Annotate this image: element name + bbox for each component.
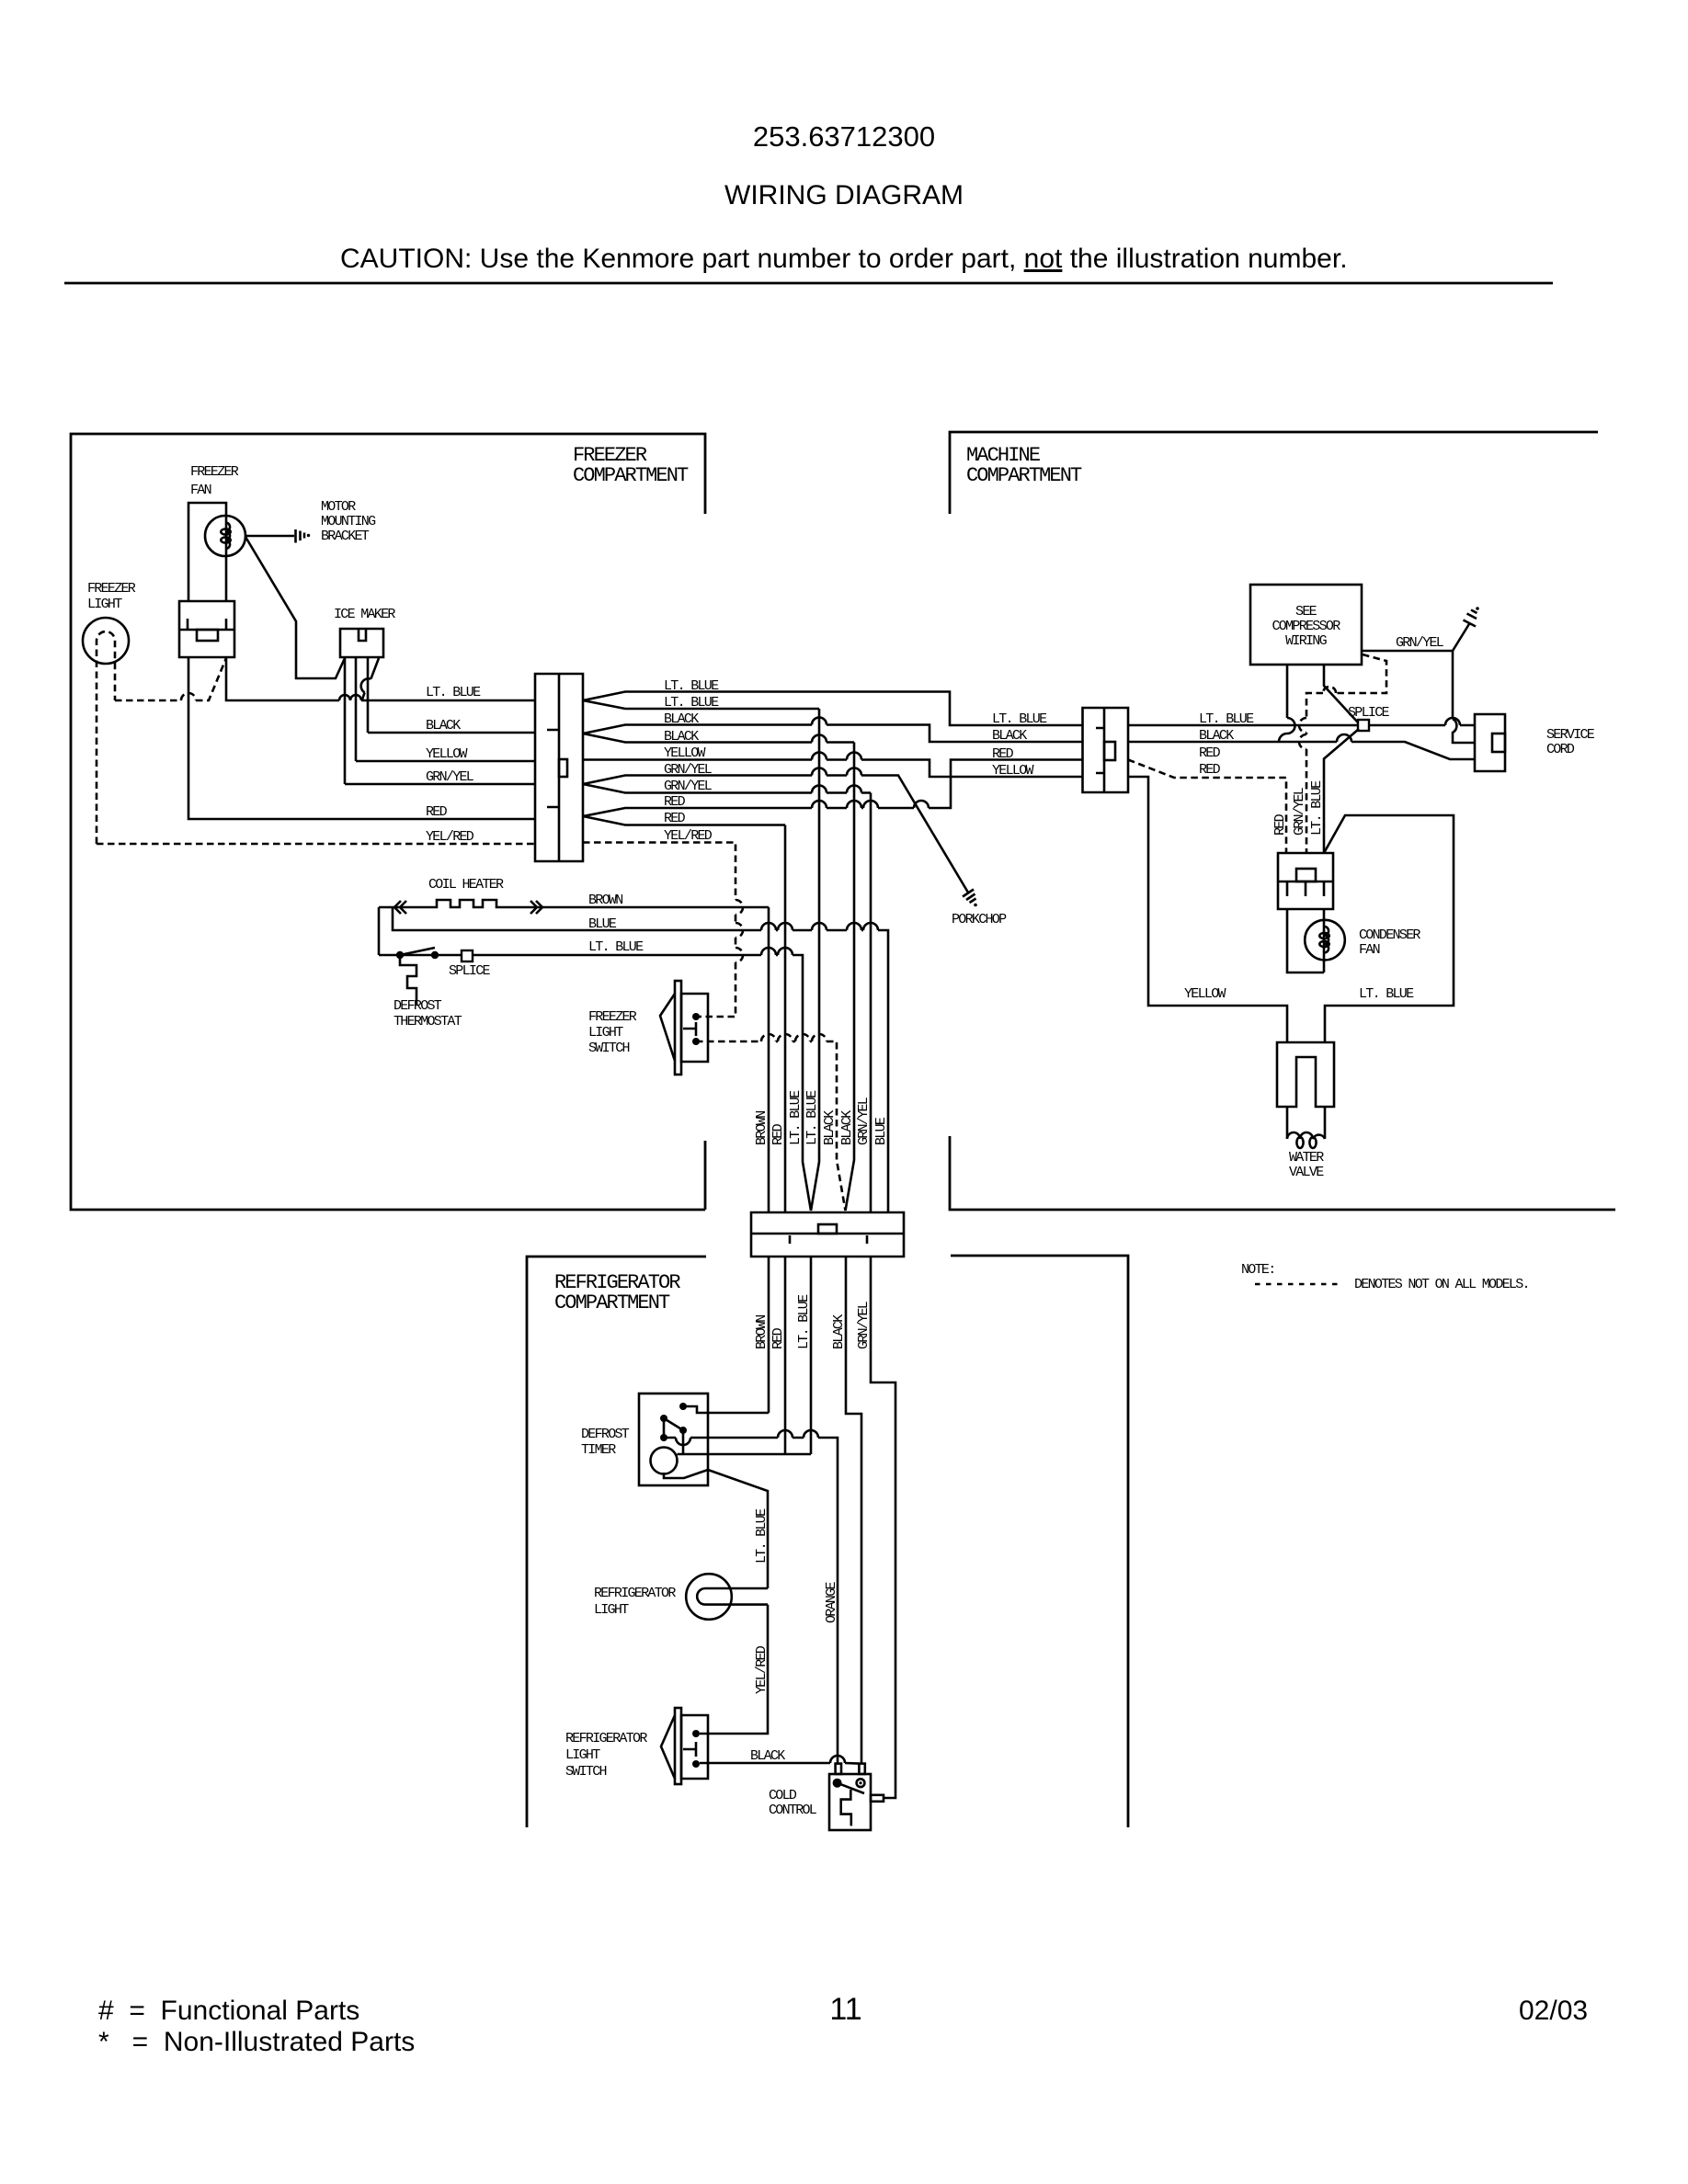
refrigerator light L2 xyxy=(686,1574,732,1620)
cold control contacts xyxy=(833,1779,842,1788)
svg-text:YELLOW: YELLOW xyxy=(1184,986,1226,1002)
ice maker box xyxy=(340,629,383,657)
wire yellow to machine xyxy=(583,760,1082,778)
timer red and lt.blue wire xyxy=(678,1453,812,1456)
svg-text:GRN/YEL: GRN/YEL xyxy=(426,769,474,785)
svg-text:REFRIGERATOR: REFRIGERATOR xyxy=(594,1586,676,1601)
svg-text:COMPRESSOR: COMPRESSOR xyxy=(1272,619,1340,634)
wire lt.blue machine to splice xyxy=(1128,724,1475,727)
wire yellow to water valve xyxy=(1128,777,1287,1042)
pair split lt.blue xyxy=(583,692,1082,726)
svg-text:RED: RED xyxy=(770,1123,786,1145)
svg-text:LIGHT: LIGHT xyxy=(588,1025,623,1041)
svg-text:NOTE:: NOTE: xyxy=(1241,1262,1275,1278)
svg-text:BROWN: BROWN xyxy=(754,1315,770,1349)
bulb element xyxy=(697,1588,768,1605)
wire yellow freezer xyxy=(356,760,535,763)
svg-text:BLACK: BLACK xyxy=(750,1748,785,1764)
svg-text:BLACK: BLACK xyxy=(664,711,699,727)
splice square xyxy=(1358,720,1369,731)
svg-text:SERVICE: SERVICE xyxy=(1546,727,1595,743)
svg-text:LT. BLUE: LT. BLUE xyxy=(588,939,644,955)
motor mounting bracket ground xyxy=(294,529,297,543)
svg-text:LT. BLUE: LT. BLUE xyxy=(754,1508,770,1564)
cold control box xyxy=(829,1774,871,1830)
wire grn/yel below connector xyxy=(871,1257,895,1798)
svg-text:GRN/YEL: GRN/YEL xyxy=(664,762,713,778)
wire lt.blue defrost thermostat xyxy=(379,709,819,1211)
svg-text:CORD: CORD xyxy=(1546,742,1575,757)
wire fan to bracket xyxy=(245,535,294,538)
ice maker pin C to black xyxy=(367,657,370,733)
water valve coil xyxy=(1287,1132,1325,1139)
defrost thermostat contacts xyxy=(396,951,404,959)
pair split grn/yel top to porkchop xyxy=(583,776,968,893)
wire yel/red dashed to switch xyxy=(583,843,736,1018)
svg-text:FREEZER: FREEZER xyxy=(190,464,239,480)
refrigerator harness connector P3 xyxy=(751,1212,904,1257)
svg-text:LT. BLUE: LT. BLUE xyxy=(796,1294,812,1349)
svg-text:MOUNTING: MOUNTING xyxy=(321,514,376,529)
water valve xyxy=(1277,1042,1334,1107)
svg-text:LT. BLUE: LT. BLUE xyxy=(992,711,1047,727)
compressor right pin to splice xyxy=(1324,665,1358,722)
cold control side tab xyxy=(871,1795,884,1802)
svg-text:ICE MAKER: ICE MAKER xyxy=(334,607,395,622)
svg-text:BRACKET: BRACKET xyxy=(321,529,370,544)
svg-text:GRN/YEL: GRN/YEL xyxy=(1292,787,1307,836)
wire brown vertical xyxy=(768,907,770,1212)
svg-text:ORANGE: ORANGE xyxy=(824,1581,839,1623)
svg-text:DENOTES NOT ON ALL MODELS.: DENOTES NOT ON ALL MODELS. xyxy=(1354,1277,1529,1292)
wire grn/yel to ground xyxy=(1362,623,1470,651)
svg-text:BROWN: BROWN xyxy=(588,893,622,908)
svg-text:LT. BLUE: LT. BLUE xyxy=(664,678,719,694)
freezer harness connector P1 xyxy=(535,674,583,861)
svg-text:YEL/RED: YEL/RED xyxy=(426,829,474,845)
svg-text:BROWN: BROWN xyxy=(754,1111,770,1145)
wire blue from heater xyxy=(393,907,888,1212)
svg-text:CONDENSER: CONDENSER xyxy=(1359,927,1420,943)
svg-text:LT. BLUE: LT. BLUE xyxy=(426,685,481,700)
svg-text:COMPARTMENT: COMPARTMENT xyxy=(554,1291,670,1314)
svg-text:SPLICE: SPLICE xyxy=(1348,705,1390,721)
svg-text:FREEZER: FREEZER xyxy=(87,581,136,597)
svg-text:RED: RED xyxy=(1199,762,1221,778)
dashed hops over heater wires xyxy=(736,900,743,962)
svg-text:LIGHT: LIGHT xyxy=(565,1747,600,1763)
splice square xyxy=(462,950,473,961)
svg-text:GRN/YEL: GRN/YEL xyxy=(856,1097,872,1145)
svg-text:LT. BLUE: LT. BLUE xyxy=(804,1090,820,1145)
header rule xyxy=(64,282,1553,285)
wire grn/yel vertical bus xyxy=(870,793,873,1213)
svg-text:WIRING: WIRING xyxy=(1285,633,1328,649)
svg-text:COLD: COLD xyxy=(769,1788,797,1803)
cold control capillary xyxy=(841,1790,851,1826)
svg-text:RED: RED xyxy=(1199,745,1221,761)
timer pin 1 wire to brown xyxy=(679,1403,687,1410)
ice maker pin A to grn/yel xyxy=(344,657,347,784)
freezer fan outline xyxy=(188,503,226,601)
svg-text:11: 11 xyxy=(829,1992,861,2027)
svg-text:YELLOW: YELLOW xyxy=(992,763,1034,779)
svg-text:RED: RED xyxy=(1272,813,1288,836)
svg-text:02/03: 02/03 xyxy=(1519,1996,1588,2026)
pair split red top xyxy=(583,760,1082,817)
svg-text:LIGHT: LIGHT xyxy=(594,1602,629,1618)
svg-text:BLACK: BLACK xyxy=(831,1314,847,1349)
wire black vertical bus xyxy=(846,743,855,1211)
svg-text:REFRIGERATOR: REFRIGERATOR xyxy=(565,1731,647,1746)
svg-text:RED: RED xyxy=(770,1327,786,1349)
svg-text:VALVE: VALVE xyxy=(1289,1165,1324,1180)
wire black below connector xyxy=(846,1257,861,1763)
svg-text:FREEZER: FREEZER xyxy=(588,1009,637,1025)
condenser fan loop xyxy=(1287,909,1324,973)
wire red vertical bus xyxy=(784,825,787,1213)
compressor left pin to black xyxy=(1286,665,1289,718)
svg-text:GRN/YEL: GRN/YEL xyxy=(1396,635,1444,651)
svg-text:SEE: SEE xyxy=(1295,604,1317,620)
svg-text:FAN: FAN xyxy=(190,483,211,498)
service cord plug xyxy=(1475,714,1505,771)
timer switch blade xyxy=(660,1415,667,1422)
pair split black bottom xyxy=(583,734,854,743)
svg-text:SWITCH: SWITCH xyxy=(588,1041,630,1056)
freezer fan connector block xyxy=(179,601,234,657)
freezer fan coil xyxy=(226,523,230,550)
svg-text:CAUTION: Use the Kenmore part: CAUTION: Use the Kenmore part number to … xyxy=(340,244,1348,274)
svg-text:LT. BLUE: LT. BLUE xyxy=(664,695,719,711)
ice maker pin B to yellow xyxy=(355,657,358,761)
svg-text:CONTROL: CONTROL xyxy=(769,1803,817,1818)
coil heater left leg xyxy=(378,907,381,955)
grn/yel vertical to service cord xyxy=(1452,651,1454,719)
timer pin 3 vertical xyxy=(682,1430,685,1454)
svg-text:LT. BLUE: LT. BLUE xyxy=(788,1090,804,1145)
svg-text:BLACK: BLACK xyxy=(426,718,461,734)
pair split red bottom xyxy=(583,816,785,825)
porkchop ground xyxy=(963,890,976,904)
svg-text:BLACK: BLACK xyxy=(822,1110,838,1145)
svg-text:DEFROST: DEFROST xyxy=(393,998,442,1014)
svg-text:BLACK: BLACK xyxy=(839,1110,855,1145)
svg-text:GRN/YEL: GRN/YEL xyxy=(856,1301,872,1349)
svg-text:COIL HEATER: COIL HEATER xyxy=(428,877,504,893)
freezer light switch S1 xyxy=(681,994,708,1062)
wire dashed light to fan connector xyxy=(115,658,226,700)
lt.blue loop to water valve xyxy=(1324,815,1454,1042)
wire lt.blue freezer xyxy=(226,657,535,700)
condenser fan motor M2 xyxy=(1305,920,1345,961)
svg-text:PORKCHOP: PORKCHOP xyxy=(952,912,1007,927)
svg-text:RED: RED xyxy=(426,804,448,820)
svg-text:# = Functional Parts: # = Functional Parts xyxy=(98,1996,359,2026)
defrost thermostat capillary xyxy=(400,959,416,1005)
timer motor xyxy=(651,1448,678,1474)
svg-text:WIRING DIAGRAM: WIRING DIAGRAM xyxy=(724,180,964,210)
wire red below connector xyxy=(784,1257,787,1454)
svg-text:RED: RED xyxy=(992,746,1014,762)
svg-text:COMPARTMENT: COMPARTMENT xyxy=(966,464,1082,487)
dashed grn/yel from compressor xyxy=(1306,654,1386,853)
machine compartment border xyxy=(950,432,1615,1210)
svg-text:MOTOR: MOTOR xyxy=(321,499,356,515)
lt.blue hops xyxy=(761,948,793,955)
wire lt.blue below connector xyxy=(810,1257,813,1454)
svg-text:YELLOW: YELLOW xyxy=(664,745,706,761)
svg-text:BLACK: BLACK xyxy=(664,729,699,745)
yel/red wire to switch xyxy=(700,1605,768,1734)
svg-text:THERMOSTAT: THERMOSTAT xyxy=(393,1014,462,1029)
svg-text:RED: RED xyxy=(664,794,686,810)
wire yel/red dashed from freezer light xyxy=(97,843,535,846)
refrigerator compartment border xyxy=(527,1256,1128,1827)
grn/yel ground xyxy=(1464,610,1477,627)
timer orange feed wire xyxy=(664,1438,838,1764)
timer motor bottom to light xyxy=(664,1470,768,1588)
wire fan case to ice maker pin A xyxy=(245,537,345,678)
svg-text:YEL/RED: YEL/RED xyxy=(754,1645,770,1694)
defrost timer box xyxy=(639,1393,708,1485)
condenser fan connector xyxy=(1278,853,1333,909)
freezer light bulb filament dashed xyxy=(97,631,115,844)
ice maker pin D to lt.blue xyxy=(362,658,379,700)
svg-text:253.63712300: 253.63712300 xyxy=(753,120,935,153)
see compressor wiring box xyxy=(1250,585,1362,665)
refrigerator light switch S2 xyxy=(681,1715,708,1779)
svg-text:YEL/RED: YEL/RED xyxy=(664,828,713,844)
dashed hop over red wire xyxy=(181,693,196,700)
wire black machine to service cord xyxy=(1128,742,1475,759)
svg-text:SPLICE: SPLICE xyxy=(449,963,491,979)
pair split grn/yel bottom xyxy=(583,784,871,793)
freezer compartment border xyxy=(71,434,705,1210)
dashed red not on all models xyxy=(1128,760,1286,854)
svg-text:BLACK: BLACK xyxy=(992,728,1027,744)
water valve legs xyxy=(1287,1107,1325,1139)
blue hops xyxy=(761,923,878,930)
svg-text:COMPARTMENT: COMPARTMENT xyxy=(573,464,689,487)
svg-text:RED: RED xyxy=(664,811,686,826)
svg-text:YELLOW: YELLOW xyxy=(426,746,468,762)
note dashed sample xyxy=(1255,1283,1341,1286)
svg-text:LT. BLUE: LT. BLUE xyxy=(1309,780,1325,836)
svg-text:* = Non-Illustrated Parts: * = Non-Illustrated Parts xyxy=(98,2027,415,2057)
black wire to cold control xyxy=(700,1762,859,1765)
svg-text:SWITCH: SWITCH xyxy=(565,1764,607,1780)
splice to lt.blue vertical xyxy=(1324,729,1359,853)
svg-text:BLUE: BLUE xyxy=(873,1117,889,1145)
coil heater element xyxy=(379,900,769,907)
freezer light L1 xyxy=(83,618,129,664)
svg-text:GRN/YEL: GRN/YEL xyxy=(664,779,713,794)
wire black dashed from switch xyxy=(696,1041,846,1211)
wire brown below connector xyxy=(768,1257,770,1413)
svg-text:TIMER: TIMER xyxy=(581,1442,616,1458)
pair split black top xyxy=(583,725,1082,743)
dashed hops xyxy=(761,1034,827,1041)
svg-text:LT. BLUE: LT. BLUE xyxy=(1359,986,1414,1002)
svg-text:WATER: WATER xyxy=(1289,1150,1324,1166)
wire grn/yel freezer xyxy=(345,783,535,786)
svg-text:FAN: FAN xyxy=(1359,942,1380,958)
machine connector P2 xyxy=(1083,708,1129,792)
wire red freezer xyxy=(188,657,535,819)
svg-text:DEFROST: DEFROST xyxy=(581,1427,630,1442)
wire black freezer xyxy=(368,732,535,734)
freezer fan motor M1 xyxy=(205,516,245,556)
svg-text:LIGHT: LIGHT xyxy=(87,597,122,612)
coil heater arrow marks xyxy=(394,901,542,914)
